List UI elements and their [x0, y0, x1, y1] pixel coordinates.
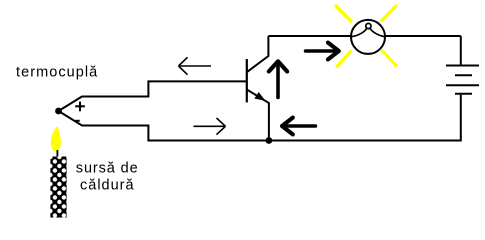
wire collector to lamp to battery top: [268, 35, 460, 37]
wire battery top stub: [460, 36, 462, 65]
label - (thermocouple negative): [75, 120, 79, 122]
lamp ray lower-left: [337, 52, 351, 67]
transistor Q1 base bar: [246, 59, 248, 102]
arrow bold up (emitter to collector): [269, 61, 287, 97]
svg-text:termocuplă: termocuplă: [16, 65, 98, 81]
lamp L1 bulb circle: [351, 20, 385, 54]
svg-text:căldură: căldură: [80, 178, 135, 194]
arrow bold right (to lamp): [306, 43, 339, 60]
wire thermocouple lower lead to bottom rail: [59, 111, 461, 141]
wire thermocouple upper lead to transistor base: [59, 81, 247, 111]
battery B1 plates: [446, 66, 479, 94]
node emitter junction on bottom rail: [266, 137, 273, 144]
svg-text:sursă de: sursă de: [76, 160, 139, 176]
lamp L1 filament: [351, 28, 367, 36]
transistor Q1 emitter lead: [247, 90, 269, 141]
candle flame: [51, 126, 61, 151]
arrow bold left (return current): [282, 118, 316, 135]
wire battery bottom stub: [460, 95, 462, 142]
lamp ray upper-right: [382, 6, 396, 21]
candle wick: [56, 150, 58, 157]
arrow thin right (bottom current direction): [194, 118, 226, 135]
node thermocouple junction: [55, 108, 62, 115]
label + (thermocouple positive): [75, 102, 85, 112]
lamp ray lower-right: [383, 51, 397, 66]
arrow thin left (top current direction): [179, 57, 212, 74]
lamp ray upper-left: [336, 6, 351, 21]
transistor Q1 emitter arrowhead: [254, 92, 265, 101]
transistor Q1 collector lead: [247, 36, 269, 72]
